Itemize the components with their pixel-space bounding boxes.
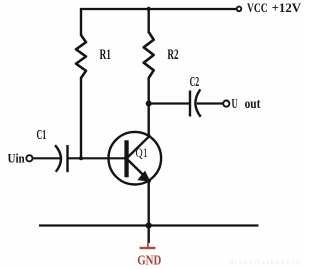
transistor Q1 (109, 132, 162, 185)
wire base (68, 157, 125, 159)
svg-text:VCC: VCC (247, 0, 268, 15)
svg-text:out: out (245, 97, 261, 112)
svg-text:Q1: Q1 (136, 146, 148, 160)
wire input terminal to C1 (33, 157, 61, 159)
junction dot ground node (146, 222, 152, 228)
resistor R2 (144, 32, 154, 78)
wire middle rail upper segment (147, 8, 149, 33)
svg-text:C2: C2 (190, 75, 200, 90)
svg-text:C1: C1 (37, 128, 47, 143)
wire top supply rail (80, 8, 236, 10)
svg-text:U: U (232, 97, 238, 112)
svg-text:Uin: Uin (8, 151, 26, 166)
resistor R1 (76, 35, 86, 78)
svg-text:R2: R2 (167, 47, 178, 63)
junction dot base node (79, 156, 83, 160)
svg-text:dianzifashaoyou: dianzifashaoyou (230, 257, 302, 266)
wire left rail lower segment (80, 77, 82, 159)
svg-text:+12V: +12V (272, 0, 302, 15)
wire emitter down (147, 181, 149, 244)
junction dot output node (146, 101, 152, 107)
wire output node to C2 (149, 102, 190, 104)
wire left rail upper segment (80, 8, 82, 36)
wire ground rail (39, 224, 259, 226)
terminal VCC (237, 7, 242, 12)
wire C2 to output terminal (197, 102, 223, 104)
junction dot top rail / R2 (147, 7, 151, 11)
svg-text:R1: R1 (100, 47, 112, 63)
ground symbol (red) (140, 242, 156, 248)
wire collector rail segment (147, 77, 149, 136)
capacitor C1 (55, 145, 67, 172)
terminal Uin (26, 155, 32, 161)
capacitor C2 (190, 89, 201, 116)
svg-text:GND: GND (137, 254, 161, 269)
terminal U out (223, 101, 229, 107)
